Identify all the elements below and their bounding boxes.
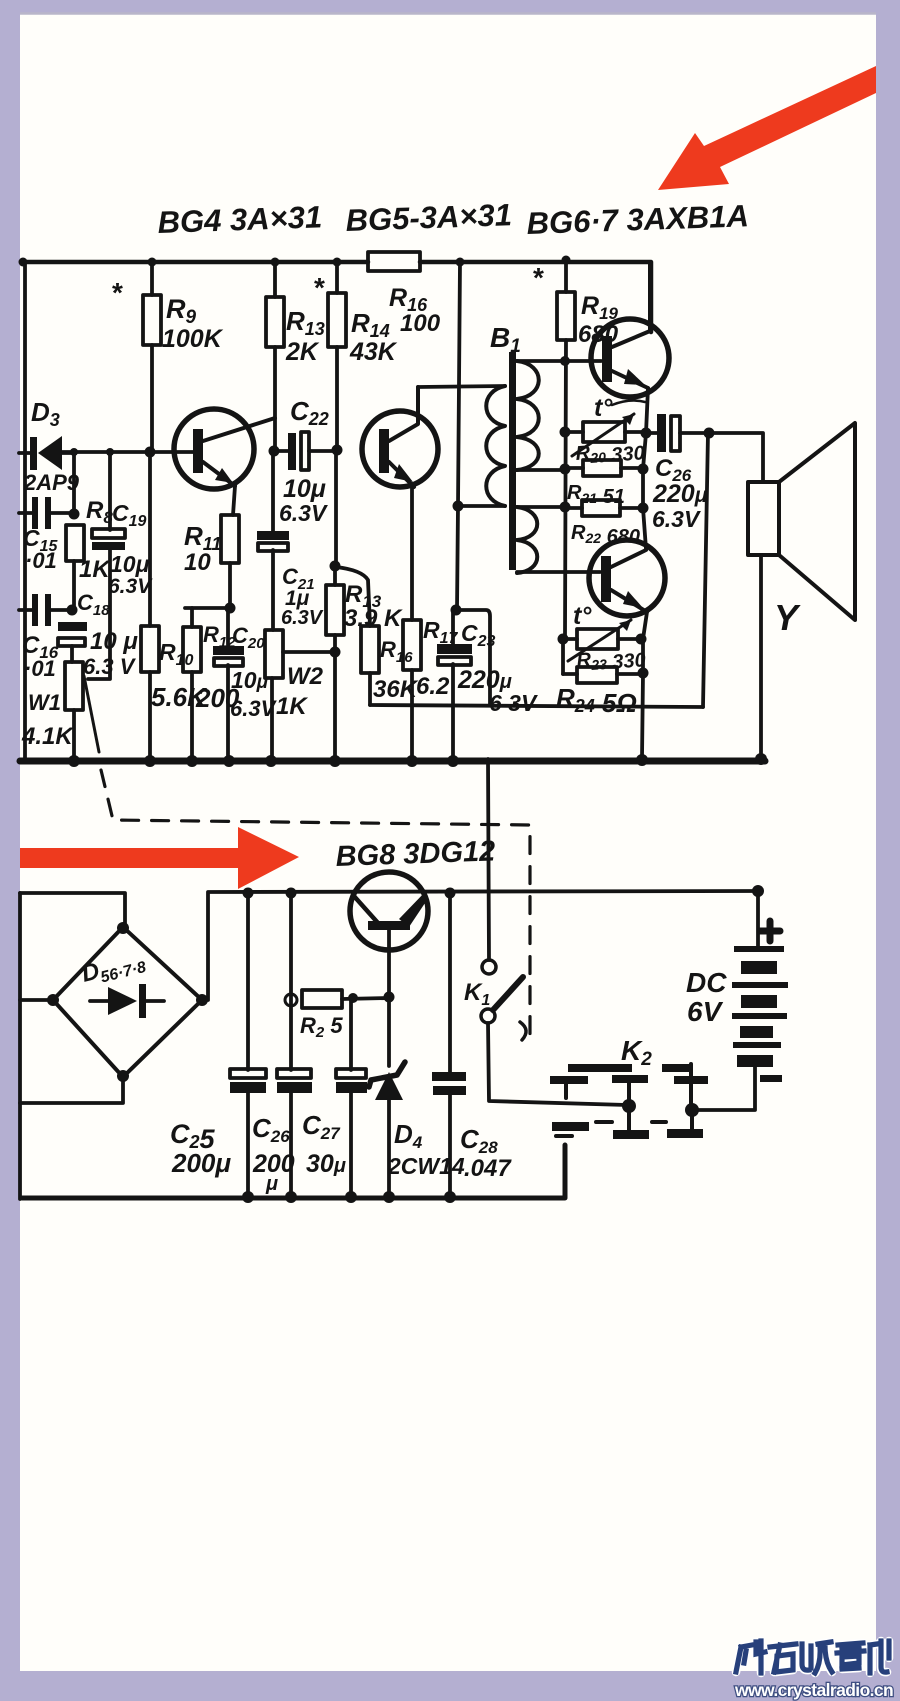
node bus R13b [329,755,341,767]
bridge rectifier D5-8 [47,922,208,1082]
svg-text:6.2: 6.2 [416,673,450,700]
svg-text:200μ: 200μ [171,1148,231,1178]
capacitor C20 [213,608,278,758]
node bus speaker [755,753,767,765]
svg-text:6.3V: 6.3V [652,506,701,532]
wire lower return [370,705,703,707]
svg-text:·01: ·01 [25,548,57,573]
node W2 wiper join [330,647,341,658]
potentiometer W2 [265,630,334,758]
capacitor C22 [274,396,337,526]
zener diode D4 2CW14 [369,997,465,1196]
wire BG5 collector to B1 primary [418,386,505,387]
capacitor C27 [302,998,367,1196]
node bus R17 [406,755,418,767]
speaker Y [748,423,855,758]
wire R23 R24 left rail [561,639,565,674]
wire top supply bus [22,262,651,332]
resistor R10 [141,452,208,758]
resistor R12 [183,608,240,758]
svg-text:Y: Y [774,597,801,638]
node BG4 base [145,447,156,458]
node R9 top [148,258,157,267]
resistor R24 5 [556,667,643,718]
node R14 top [333,258,342,267]
node bus W1 [68,755,80,767]
svg-text:10μ: 10μ [283,475,326,503]
transistor BG8 [350,872,428,950]
wire D3 to BG4 base [62,450,193,454]
node BG5 base [332,445,343,456]
node R23 left [558,634,569,645]
svg-text:100: 100 [400,310,441,337]
node B1 feed [456,258,465,267]
svg-text:1K: 1K [276,693,308,720]
node D3 output [70,448,78,456]
node R8 top [69,509,80,520]
svg-text:W2: W2 [287,663,324,690]
svg-text:BG4 3A×31: BG4 3A×31 [157,199,323,240]
svg-text:BG5-3A×31: BG5-3A×31 [345,197,512,238]
svg-text:43K: 43K [349,338,398,366]
resistor R13 2K [266,262,325,451]
node bus R12 [186,755,198,767]
wire power left rail [18,893,22,1199]
node rail C26b [286,888,297,899]
svg-text:DC: DC [686,967,727,998]
resistor R22 680 [565,500,642,548]
resistor R19 [557,260,619,637]
wire B1 supply rail [457,262,460,610]
node top bus left corner [19,258,28,267]
svg-text:220μ: 220μ [652,480,708,508]
wire left rail [23,262,27,758]
node R11 bottom [225,603,236,614]
capacitor C23 box [437,610,538,758]
capacitor C26 output [646,414,709,532]
node B1 primary bottom [453,501,464,512]
ground bus [20,758,765,765]
node bbus C28 [444,1191,456,1203]
capacitor C26b [252,893,312,1196]
capacitor C21 [257,451,324,630]
svg-text:·01: ·01 [24,656,56,681]
resistor R25 [285,990,389,1041]
svg-text:2AP9: 2AP9 [23,470,80,495]
node R13 top [271,258,280,267]
svg-text:10μ: 10μ [110,551,150,577]
switch K1 [464,759,627,1105]
wire power positive rail [20,891,758,1000]
svg-text:www.crystalradio.cn: www.crystalradio.cn [734,1680,893,1700]
wire bridge bottom [20,1077,123,1103]
node K2 right [685,1103,699,1117]
svg-text:.047: .047 [464,1155,512,1182]
node bus C23 [447,755,459,767]
svg-text:100K: 100K [162,325,224,353]
svg-text:*: * [314,272,325,303]
node C19 tap [106,448,114,456]
watermark block [0,1671,900,1701]
svg-text:R24 5Ω: R24 5Ω [556,683,637,718]
svg-text:2CW14: 2CW14 [387,1153,465,1179]
node R21 left [560,464,571,475]
node bus BG7 [636,754,648,766]
svg-text:*: * [533,262,544,293]
node output C26 [641,428,652,439]
potentiometer W1 [21,662,99,758]
wire D3 node down [72,452,76,514]
wire secondary taps [517,470,600,572]
node bus R10 [144,755,156,767]
node bbus C26b [285,1191,297,1203]
node R20 left [560,427,571,438]
svg-text:6.3V: 6.3V [279,500,328,526]
svg-text:t°: t° [594,394,613,422]
node R23 right [636,634,647,645]
svg-text:BG8 3DG12: BG8 3DG12 [335,835,496,873]
resistor R8 [66,497,113,610]
wire BG5 base column [334,450,338,566]
resistor R13b 3.9K [326,566,403,652]
watermark logo text [736,1641,889,1673]
label t deg BG6 [594,394,645,422]
thermistor R23 330 [563,620,646,676]
transistor BG5 [362,387,438,487]
wire R11 to R12 [185,606,230,610]
transistor BG4 [174,409,275,515]
node bbus C27 [345,1191,357,1203]
wire output return [703,433,708,707]
resistor R16b 36K [361,626,419,705]
resistor R9 [143,262,224,452]
red arrow top [658,66,876,190]
svg-text:10 μ: 10 μ [90,628,138,655]
resistor R16 [368,252,441,337]
node speaker feed [704,428,715,439]
capacitor C16 [19,594,68,681]
node R13b top [330,561,341,572]
wire R13b bottom [333,652,337,758]
node C27 tap [348,993,358,1003]
svg-text:t°: t° [573,602,592,630]
svg-text:W1: W1 [28,690,61,715]
svg-text:30μ: 30μ [306,1150,346,1178]
svg-text:6V: 6V [687,996,724,1027]
node rail C28 [445,888,456,899]
svg-text:6 3V: 6 3V [489,690,538,716]
wire bridge AC left [20,998,53,1002]
transformer B1 [486,322,539,573]
node bbus D4 [383,1191,395,1203]
node R22 right [638,503,649,514]
node R19 base junction [560,356,570,366]
diode D3 2AP9 [19,397,80,495]
red arrow left [20,827,299,889]
svg-text:1K: 1K [79,556,111,583]
capacitor C28 [432,893,512,1196]
transistor BG7 [589,540,665,616]
svg-text:4.1K: 4.1K [21,723,74,750]
node R24 right [638,668,649,679]
resistor R14 [328,262,398,449]
node bus W2 [265,755,277,767]
node K2 mid [622,1099,636,1113]
wire BG7 emitter rail [642,612,647,758]
svg-text:6.3V: 6.3V [281,607,324,629]
thermistor R20 330 [565,414,646,469]
wire to speaker [709,433,763,482]
node C16 right [67,605,78,616]
node BG4 collector [269,446,280,457]
node C23 top [451,605,462,616]
node bus C20 [223,755,235,767]
wire secondary top to BG6 base [517,359,601,363]
resistor R11 [184,515,239,609]
resistor R21 51 [565,460,642,508]
transistor BG6 [591,262,669,397]
capacitor C18 [58,590,138,679]
wire AGC dashed [101,770,530,1040]
capacitor C19 [88,452,153,679]
capacitor C15 [19,497,70,573]
node R19 top [562,256,571,265]
svg-text:*: * [112,277,123,308]
node rail battery [752,885,764,897]
svg-text:10: 10 [184,549,211,576]
bottom bus [22,1145,565,1198]
battery DC 6V [686,891,788,1082]
node R21 right [638,464,649,475]
wire primary bottom stub [458,504,505,508]
svg-text:6.3V: 6.3V [108,575,153,598]
node rail C25 [243,888,254,899]
node R22 left [560,502,571,513]
wire BG8 base down [387,930,391,997]
capacitor C25 [170,893,266,1196]
svg-text:μ: μ [265,1173,278,1195]
resistor R17 6.2 [403,487,459,758]
node BG8 base [384,992,395,1003]
node bbus C25 [242,1191,254,1203]
wire output rail [643,388,648,549]
connector K2 [550,1035,708,1139]
svg-text:3.9 K: 3.9 K [344,605,403,632]
wire K2 to battery [692,1067,755,1110]
svg-text:2K: 2K [285,338,320,366]
wire R13b to R16b [336,567,370,626]
